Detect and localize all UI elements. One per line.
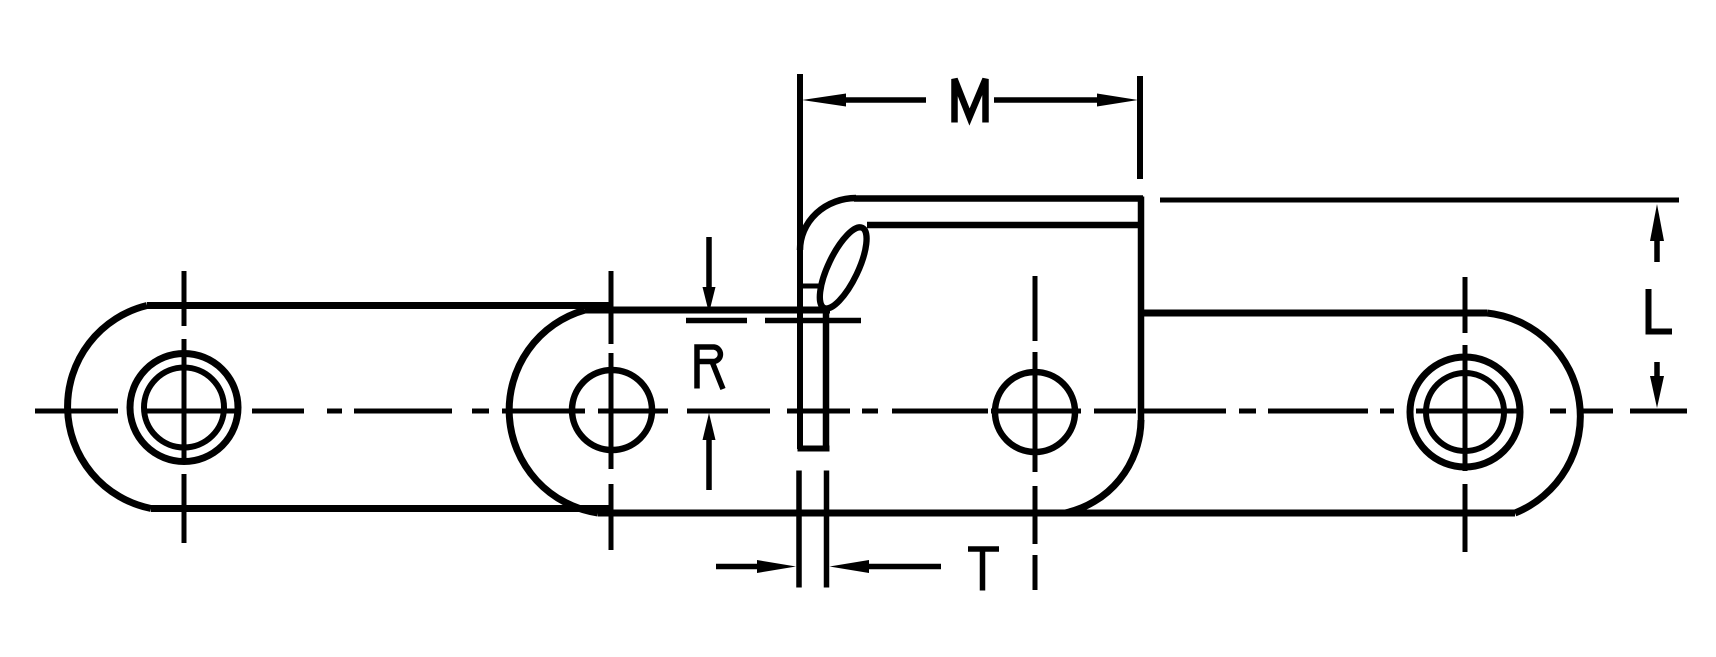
bend line tick inside tab — [803, 284, 823, 289]
R dimension down arrowhead — [703, 287, 716, 313]
R dimension lower shaft — [706, 440, 712, 490]
L dimension upper shaft — [1654, 240, 1660, 262]
platform bottom surface — [867, 222, 1140, 229]
L dimension down arrowhead — [1650, 376, 1664, 408]
T dimension left arrowhead — [757, 560, 796, 573]
label T — [968, 549, 999, 591]
bent tab outer (left) face + M extension line — [797, 74, 803, 449]
M dimension left arrowhead — [802, 94, 846, 107]
label R — [697, 347, 723, 389]
T dimension right arrowhead — [830, 560, 870, 573]
bent tab outer bend arc — [800, 198, 856, 250]
M dimension line left shaft — [846, 97, 926, 103]
R dimension upper shaft — [706, 237, 712, 290]
left link plate: top edge — [147, 302, 610, 309]
pin 4 vertical centerline — [1463, 277, 1468, 552]
R reference tick line — [686, 318, 861, 324]
T dimension right shaft — [867, 564, 941, 570]
attachment link plate: right face — [1138, 197, 1145, 421]
M dimension line right shaft — [994, 97, 1097, 103]
right link plate: top edge — [1141, 310, 1487, 317]
pin 3 bush circle — [995, 372, 1075, 452]
attachment link plate: top edge — [585, 307, 830, 314]
M dimension right extension line — [1137, 76, 1143, 179]
pin 4 roller circle — [1410, 357, 1520, 467]
T dimension extension lines — [799, 471, 827, 588]
pin 2 vertical centerline — [609, 271, 614, 550]
pin 1 vertical centerline — [182, 271, 187, 543]
R dimension up arrowhead — [703, 413, 716, 440]
attachment link plate: left end arc — [509, 310, 598, 513]
bend loop (teardrop) — [811, 221, 876, 314]
T dimension left shaft — [716, 564, 760, 570]
bent tab bottom cap — [798, 446, 830, 452]
label L — [1649, 289, 1673, 332]
pin 4 bush circle — [1426, 373, 1504, 451]
L dimension up arrowhead — [1650, 204, 1664, 241]
attachment + right link plates: bottom edge — [598, 510, 1515, 517]
pin 1 roller circle — [130, 354, 238, 462]
horizontal chain centerline — [35, 409, 1687, 414]
bent tab inner (right) face — [823, 308, 830, 446]
left link plate: left end arc — [68, 306, 151, 509]
pin 3 vertical centerline — [1033, 276, 1038, 590]
M dimension right arrowhead — [1097, 94, 1138, 107]
left link plate: bottom edge — [151, 505, 610, 512]
right link plate: right end arc — [1487, 313, 1580, 513]
L dimension top extension line — [1160, 198, 1679, 203]
pin 2 bush circle — [572, 370, 652, 450]
attachment link plate: right bottom corner arc — [1065, 420, 1141, 513]
label M — [955, 79, 986, 123]
L dimension lower shaft — [1654, 362, 1660, 377]
pin 1 bush circle — [144, 368, 224, 448]
platform top surface — [854, 195, 1143, 202]
